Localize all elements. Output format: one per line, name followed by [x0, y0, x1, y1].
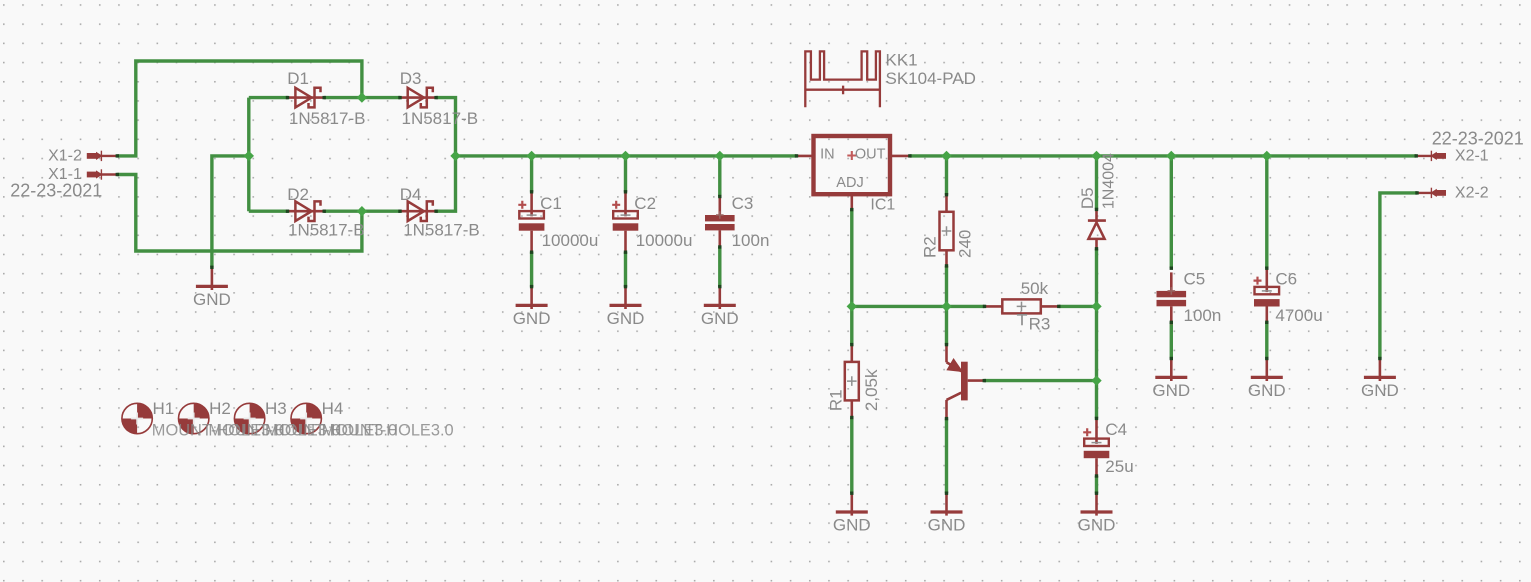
wire C2 top branch [624, 156, 627, 192]
wire rail to D5 cathode [1095, 156, 1098, 210]
wire bridge left column to D2 anode [249, 209, 288, 212]
svg-text:1N5817-B: 1N5817-B [403, 221, 480, 240]
wire bridge right column [436, 98, 455, 212]
diode D3 [400, 88, 436, 108]
svg-text:GND: GND [1361, 381, 1399, 400]
svg-text:X1-2: X1-2 [48, 148, 82, 165]
wire bridge left column [247, 98, 250, 212]
ground C1 GND [516, 286, 548, 309]
resistor R3 trimmer [984, 299, 1058, 325]
junction Q1 base/D5 node [1091, 375, 1101, 385]
capacitor C6 [1254, 268, 1280, 323]
svg-text:22-23-2021: 22-23-2021 [1432, 129, 1524, 149]
svg-text:1N5817-B: 1N5817-B [402, 109, 479, 128]
svg-text:ADJ: ADJ [836, 175, 863, 191]
svg-text:22-23-2021: 22-23-2021 [10, 181, 102, 201]
svg-text:SK104-PAD: SK104-PAD [886, 69, 976, 88]
capacitor C1 [518, 192, 544, 252]
svg-text:R3: R3 [1029, 315, 1051, 334]
connector pin X1-1 [87, 169, 118, 179]
diode D5 [1088, 209, 1106, 248]
ground Q1 GND [931, 493, 963, 516]
wire D2 cathode to D4 anode [324, 209, 400, 212]
svg-text:C3: C3 [732, 194, 754, 213]
svg-text:GND: GND [1078, 515, 1116, 534]
wire bridge left column to D1 anode [249, 96, 288, 99]
ground R1 GND [836, 493, 868, 516]
wire ADJ node down to R1 [850, 306, 853, 344]
wire X1-2 to bridge top node [117, 61, 362, 156]
mounting hole H2 [179, 403, 209, 433]
svg-text:GND: GND [513, 309, 551, 328]
wire C2 bottom to GND [624, 252, 627, 287]
capacitor C4 [1083, 420, 1109, 477]
resistor R2 [940, 195, 954, 268]
diode D4 [400, 201, 436, 221]
wire D5 column mid segment [1095, 306, 1098, 380]
junction D5 rail node [1091, 151, 1101, 161]
svg-text:50k: 50k [1021, 279, 1049, 298]
svg-text:10000u: 10000u [542, 231, 599, 250]
op-amp regulator IC1 box [797, 136, 910, 209]
ground C5 GND [1155, 358, 1187, 381]
junction C5 rail node [1166, 151, 1176, 161]
svg-text:C1: C1 [540, 194, 562, 213]
wire C3 bottom to GND [718, 247, 721, 287]
svg-text:H1: H1 [153, 399, 175, 418]
wire Q1 collector to GND [945, 419, 948, 494]
wire ADJ node to Q1 emitter [945, 306, 948, 344]
junction C6 rail node [1262, 151, 1272, 161]
junction C1 rail node [526, 151, 536, 161]
wire X1-1 to bridge bottom node [117, 175, 362, 252]
svg-text:100n: 100n [1184, 306, 1222, 325]
wire R3 to D5 column [1059, 305, 1097, 308]
transistor Q1 (PNP) [947, 345, 985, 419]
wire C5 bottom to GND [1170, 322, 1173, 358]
wire ADJ node to R3 [852, 305, 985, 308]
svg-text:25u: 25u [1105, 457, 1133, 476]
wire Q1 base to D5 column [984, 379, 1096, 382]
junction D2/D4 node [357, 206, 367, 216]
wire D5 anode down [1095, 249, 1098, 307]
svg-text:MOUNT-HOLE3.0: MOUNT-HOLE3.0 [322, 422, 454, 440]
svg-text:X2-2: X2-2 [1455, 185, 1489, 202]
wire VOUT rail IC1 OUT to X2-1 [910, 154, 1417, 157]
svg-text:X2-1: X2-1 [1455, 148, 1489, 165]
svg-text:C6: C6 [1275, 270, 1297, 289]
svg-text:100n: 100n [732, 231, 770, 250]
svg-text:GND: GND [193, 290, 231, 309]
svg-text:R2: R2 [921, 236, 940, 258]
svg-text:240: 240 [955, 230, 974, 258]
ground C2 GND [610, 286, 642, 309]
svg-text:C2: C2 [634, 194, 656, 213]
mounting hole H4 [291, 403, 321, 433]
svg-text:2,05k: 2,05k [862, 369, 881, 411]
junction C2 rail node [620, 151, 630, 161]
wire C3 top branch [718, 156, 721, 197]
svg-text:H3: H3 [265, 399, 287, 418]
svg-text:4700u: 4700u [1275, 306, 1322, 325]
wire IC1 ADJ down to ADJ node [850, 209, 853, 306]
ground C3 GND [704, 286, 736, 309]
diode D2 [288, 201, 324, 221]
svg-text:1N5817-B: 1N5817-B [289, 109, 366, 128]
junction R2/Q1 emitter node [941, 301, 951, 311]
svg-text:1N4004: 1N4004 [1101, 153, 1118, 209]
wire R1 bottom to GND [850, 418, 853, 494]
wire C1 top branch [530, 156, 533, 192]
wire C4 bottom to GND [1095, 476, 1098, 493]
junction D1/D3 node [357, 92, 367, 102]
diode D1 [288, 88, 324, 108]
svg-text:GND: GND [607, 309, 645, 328]
wire V+ rail to IC1 IN [456, 154, 797, 157]
svg-text:H4: H4 [322, 399, 344, 418]
capacitor C5 [1157, 272, 1187, 324]
capacitor C3 [705, 197, 735, 249]
mounting hole H1 [122, 403, 152, 433]
svg-text:GND: GND [928, 515, 966, 534]
svg-text:D4: D4 [400, 185, 422, 204]
connector pin X2-1 [1416, 151, 1447, 161]
junction C3 rail node [715, 151, 725, 161]
ground X2-2 GND [1364, 358, 1396, 381]
svg-text:IC1: IC1 [870, 196, 895, 213]
junction bridge left mid node [244, 151, 254, 161]
svg-text:KK1: KK1 [886, 50, 918, 69]
svg-text:GND: GND [833, 515, 871, 534]
wire C6 bottom to GND [1265, 322, 1268, 358]
wire R2 bottom to ADJ node [945, 266, 948, 307]
resistor R1 [845, 345, 859, 418]
wire D5 column to C4 [1095, 381, 1098, 419]
svg-text:GND: GND [1248, 381, 1286, 400]
svg-text:R1: R1 [826, 389, 845, 411]
svg-text:OUT: OUT [855, 146, 886, 162]
wire C1 bottom to GND [530, 252, 533, 287]
svg-text:D3: D3 [400, 69, 422, 88]
svg-text:D1: D1 [287, 69, 309, 88]
svg-text:GND: GND [1152, 381, 1190, 400]
junction bridge output node [450, 151, 460, 161]
junction ADJ/R1 node [847, 301, 857, 311]
wire rail to R2 top [945, 156, 948, 195]
mounting hole H3 [234, 403, 264, 433]
wire X2-2 to GND [1380, 193, 1417, 359]
connector pin X1-2 [87, 151, 118, 161]
ground bridge GND [196, 267, 228, 290]
svg-text:D2: D2 [287, 185, 309, 204]
capacitor C2 [612, 192, 638, 252]
svg-text:D5: D5 [1078, 187, 1097, 209]
wire D1 cathode to D3 anode [324, 96, 400, 99]
junction R3/D5 node [1091, 301, 1101, 311]
svg-text:GND: GND [701, 309, 739, 328]
connector pin X2-2 [1416, 188, 1447, 198]
wire-pin joints [116, 96, 1419, 495]
wire bridge left column to GND [212, 156, 249, 268]
svg-text:C4: C4 [1105, 420, 1127, 439]
ground C4 GND [1081, 493, 1113, 516]
svg-text:H2: H2 [209, 399, 231, 418]
junction R2 rail node [941, 151, 951, 161]
wire rail to C6 [1265, 156, 1268, 268]
svg-text:10000u: 10000u [636, 231, 693, 250]
svg-text:C5: C5 [1184, 270, 1206, 289]
heatsink KK1 [805, 51, 880, 107]
wire rail to C5 [1170, 156, 1173, 268]
ground C6 GND [1251, 358, 1283, 381]
svg-text:1N5817-B: 1N5817-B [288, 221, 365, 240]
svg-text:IN: IN [820, 146, 835, 162]
